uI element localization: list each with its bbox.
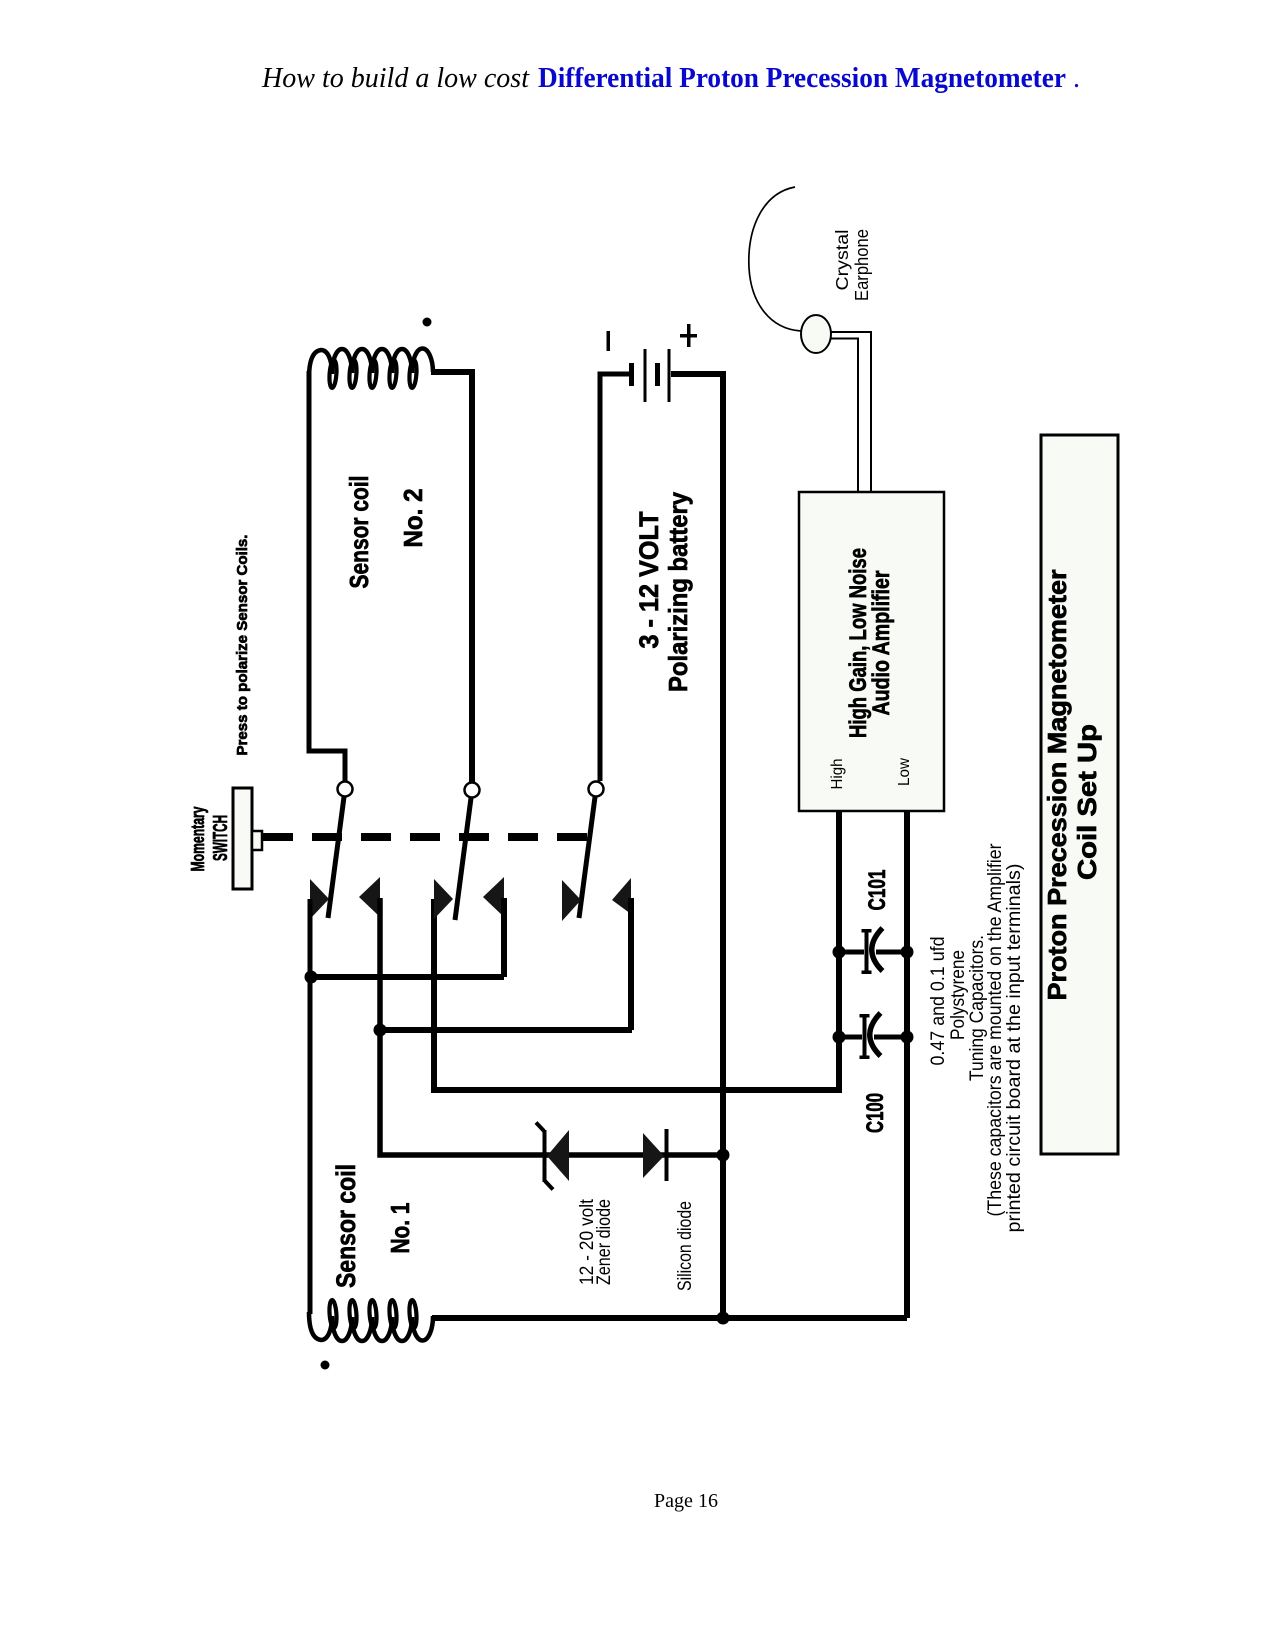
svg-text:Low: Low	[896, 758, 913, 786]
wire: switch1 left contact down to coil No.1	[308, 899, 313, 1314]
switch pole 3 lever	[579, 797, 595, 918]
switch 2 left contact	[434, 879, 453, 919]
switch pole 2 lever	[455, 798, 471, 920]
svg-text:Proton Precession Magnetometer: Proton Precession Magnetometer	[1042, 570, 1072, 1001]
battery plates	[629, 363, 634, 386]
svg-text:High: High	[829, 759, 846, 790]
cross wire B: switch1-right to switch3-right	[380, 1027, 632, 1033]
junction dot: diodes wire meets battery rail	[717, 1149, 730, 1162]
phase dot below coil No.1	[321, 1361, 330, 1370]
switch 2 right contact	[483, 877, 504, 917]
title	[261, 63, 1080, 94]
capacitor C101	[833, 870, 914, 975]
svg-text:Earphone: Earphone	[852, 229, 872, 301]
junction dot: battery rail meets bottom rail	[717, 1312, 730, 1325]
svg-text:Crystal: Crystal	[832, 230, 852, 291]
setup box	[1041, 435, 1118, 1154]
zener diode D1	[536, 1123, 569, 1190]
momentary switch plunger	[252, 831, 262, 850]
wire: coil2 right leg down to switch pole 2	[431, 372, 472, 783]
switch pole 2 pivot	[465, 783, 480, 798]
switch pole 1 lever	[328, 797, 344, 918]
svg-text:C100: C100	[862, 1093, 889, 1133]
inductor L1 Sensor coil No.1 body	[309, 1300, 433, 1341]
phase dot above coil No.2	[423, 318, 432, 327]
svg-text:SWITCH: SWITCH	[210, 815, 232, 861]
svg-text:Page 16: Page 16	[654, 1490, 718, 1512]
switch pole 1 pivot	[338, 782, 353, 797]
svg-text:Polystyrene: Polystyrene	[948, 950, 969, 1040]
svg-text:Zener diode: Zener diode	[593, 1199, 615, 1285]
wire: switch1 right contact down, then right through diodes to battery+ rail	[380, 898, 723, 1155]
amplifier box U1	[799, 492, 944, 811]
svg-text:Differential Proton Precession: Differential Proton Precession Magnetome…	[538, 63, 1066, 94]
svg-text:.: .	[1073, 63, 1080, 94]
wire: coil2 left leg down to switch pole 1	[309, 371, 345, 781]
svg-text:How to build a low cost: How to build a low cost	[261, 63, 530, 94]
inductor L2 Sensor coil No.2 body	[309, 349, 433, 389]
wire: switch3 right contact down	[628, 898, 634, 1030]
battery BT1	[600, 324, 723, 1318]
svg-text:3 - 12 VOLT: 3 - 12 VOLT	[634, 511, 664, 648]
svg-text:Polarizing battery: Polarizing battery	[663, 492, 693, 692]
svg-text:No. 1: No. 1	[385, 1203, 415, 1254]
crystal earphone hook arc	[749, 187, 801, 331]
battery right wire + long vertical down to diodes junction and bottom wire	[671, 374, 723, 1318]
minus sign	[607, 331, 611, 351]
earphone cable (two conductors)	[830, 332, 871, 492]
bottom rail: coil No.1 to Low terminal	[432, 1315, 907, 1321]
capacitor C100	[833, 1013, 914, 1133]
crystal earphone body	[801, 315, 831, 353]
wire: High terminal down through C101/C100 to cross wire and switch2 left contact	[434, 811, 839, 1090]
silicon diode D2	[643, 1129, 669, 1181]
svg-text:Momentary: Momentary	[188, 807, 208, 872]
svg-text:Coil Set Up: Coil Set Up	[1072, 724, 1102, 880]
svg-text:printed circuit board at the i: printed circuit board at the input termi…	[1004, 864, 1025, 1233]
svg-text:Audio Amplifier: Audio Amplifier	[868, 571, 895, 716]
switch 1 left contact	[310, 879, 329, 919]
svg-text:No. 2: No. 2	[398, 489, 428, 548]
svg-text:Press to polarize Sensor Coils: Press to polarize Sensor Coils.	[234, 535, 251, 756]
battery left wire + left vertical to switch pole 3	[600, 374, 629, 781]
switch 3 right contact	[612, 878, 631, 914]
svg-text:Sensor coil: Sensor coil	[331, 1164, 361, 1288]
svg-text:0.47 and 0.1 ufd: 0.47 and 0.1 ufd	[928, 937, 949, 1066]
junction dot A	[305, 971, 318, 984]
mechanical linkage (dashed)	[263, 833, 587, 841]
svg-text:Silicon diode: Silicon diode	[674, 1201, 696, 1291]
junction dot B	[374, 1024, 387, 1037]
switch 1 right contact	[359, 877, 380, 917]
switch pole 3 pivot	[589, 782, 604, 797]
momentary switch button body	[233, 788, 252, 889]
wire: switch2 right contact down	[501, 898, 507, 977]
svg-text:Sensor coil: Sensor coil	[344, 476, 374, 589]
plus sign	[680, 334, 697, 338]
switch 3 left contact (unconnected)	[562, 880, 581, 921]
svg-text:(These capacitors are mounted: (These capacitors are mounted on the Amp…	[985, 843, 1006, 1217]
wire: Low terminal down to bottom rail	[904, 811, 910, 1318]
cross wire A: switch1-left to switch2-right	[311, 974, 504, 980]
svg-text:C101: C101	[864, 870, 891, 911]
